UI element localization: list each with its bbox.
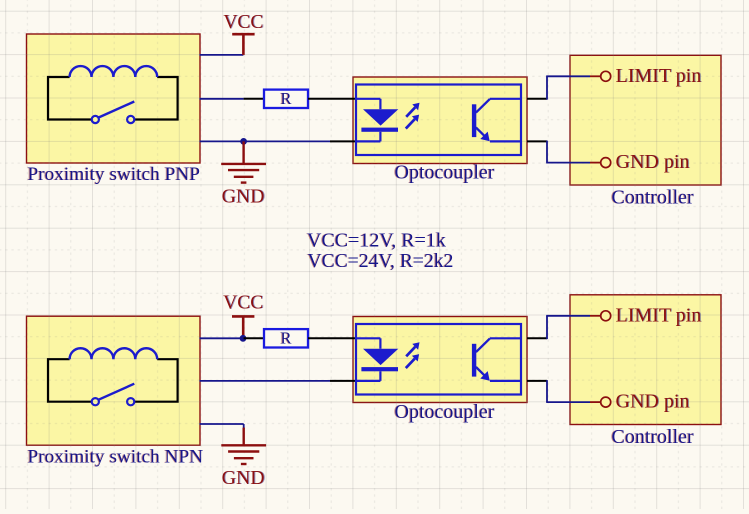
resistor R (bottom): [264, 329, 308, 348]
optocoupler U2 light arrows (bottom): [406, 342, 420, 368]
optocoupler U2 phototransistor (bottom): [472, 338, 521, 381]
svg-text:Optocoupler: Optocoupler: [395, 401, 495, 423]
svg-text:VCC=12V, R=1k: VCC=12V, R=1k: [307, 230, 446, 252]
label Controller (top): [610, 187, 694, 209]
optocoupler U1 phototransistor (top): [472, 99, 521, 142]
wire: PNP pin3 to optocoupler cathode (top): [200, 140, 331, 142]
optocoupler box (top): [353, 77, 527, 164]
inductor coil L2: [70, 348, 158, 359]
svg-text:GND: GND: [222, 186, 265, 208]
label Optocoupler (top): [394, 161, 495, 183]
label VCC (bottom): [223, 293, 264, 314]
label Proximity switch PNP: [27, 164, 201, 185]
label LIMIT pin (top): [616, 65, 703, 87]
wire: PNP pin1 to VCC: [200, 54, 244, 56]
wire: collector to LIMIT pin (bottom): [546, 316, 590, 339]
pin LIMIT (top controller): [590, 71, 611, 81]
svg-text:Optocoupler: Optocoupler: [395, 161, 495, 183]
optocoupler U1 light arrows (top): [406, 103, 420, 129]
resistor R left pin (top): [244, 98, 264, 100]
svg-text:VCC: VCC: [223, 12, 263, 33]
inductor L1 (PNP sensor outline): [48, 77, 178, 120]
wire: emitter to GND pin (top): [546, 141, 590, 163]
label Optocoupler (bottom): [394, 401, 495, 423]
controller box (bottom): [570, 295, 721, 425]
optocoupler U1 LED (top): [356, 99, 398, 142]
wire: emitter to GND pin (bottom): [546, 380, 590, 402]
pin GND (bottom controller): [590, 397, 611, 407]
switch S1 (PNP output contact): [92, 102, 135, 124]
svg-text:VCC: VCC: [223, 293, 263, 314]
wire: NPN pin2 to optocoupler cathode (bottom): [200, 380, 331, 382]
svg-text:Controller: Controller: [611, 426, 694, 448]
wire: NPN pin3 to ground (bottom): [200, 424, 244, 429]
optocoupler cathode pin (top): [330, 140, 356, 142]
label GND (top): [222, 186, 266, 208]
optocoupler U1 inner rect (top): [356, 85, 521, 156]
proximity switch NPN box: [27, 316, 201, 445]
svg-text:GND pin: GND pin: [616, 391, 690, 413]
optocoupler U2 LED (bottom): [356, 338, 398, 381]
pin LIMIT (bottom controller): [590, 311, 611, 321]
label VCC (top): [223, 12, 264, 33]
switch S2 (NPN output contact): [92, 384, 135, 406]
optocoupler collector pin (top): [527, 98, 547, 100]
wire: NPN pin1 to VCC node and resistor (bottom): [200, 337, 244, 339]
optocoupler box (bottom): [353, 317, 527, 403]
resistor R right pin / optocoupler anode pin (bottom): [308, 337, 356, 339]
inductor coil L1: [70, 66, 158, 77]
node: GND junction (top): [240, 138, 247, 145]
pin GND (top controller): [590, 158, 611, 168]
controller box (top): [570, 55, 721, 185]
svg-text:GND pin: GND pin: [616, 151, 690, 173]
wire: PNP pin2 to resistor R: [200, 98, 244, 100]
svg-text:Proximity switch NPN: Proximity switch NPN: [28, 446, 204, 467]
power VCC (top): [232, 34, 254, 55]
svg-text:LIMIT pin: LIMIT pin: [616, 304, 702, 326]
label Controller (bottom): [610, 426, 694, 448]
svg-text:LIMIT pin: LIMIT pin: [616, 65, 702, 87]
label Proximity switch NPN: [27, 446, 204, 467]
resistor R (top): [264, 89, 308, 108]
proximity switch PNP box: [27, 34, 201, 163]
label GND (bottom): [222, 467, 266, 489]
ground GND (bottom): [221, 428, 266, 464]
svg-text:VCC=24V, R=2k2: VCC=24V, R=2k2: [308, 251, 454, 272]
resistor R right pin / optocoupler anode pin (top): [308, 98, 356, 100]
svg-text:Proximity switch PNP: Proximity switch PNP: [28, 164, 201, 185]
svg-text:GND: GND: [222, 467, 265, 489]
optocoupler U2 inner rect (bottom): [356, 324, 521, 395]
optocoupler emitter pin (bottom): [527, 380, 547, 382]
value label VCC=12V, R=1k: [306, 230, 446, 252]
label GND pin (bottom): [616, 391, 691, 413]
optocoupler emitter pin (top): [527, 140, 547, 142]
resistor R left pin (bottom): [244, 337, 264, 339]
optocoupler cathode pin (bottom): [330, 380, 356, 382]
value label VCC=24V, R=2k2: [307, 251, 454, 272]
label GND pin (top): [616, 151, 691, 173]
svg-text:Controller: Controller: [611, 187, 694, 209]
power VCC (bottom): [232, 316, 254, 338]
optocoupler collector pin (bottom): [527, 337, 547, 339]
label LIMIT pin (bottom): [616, 304, 703, 326]
svg-text:R: R: [280, 89, 291, 108]
node: VCC junction (bottom): [240, 335, 247, 342]
ground GND (top): [221, 141, 266, 182]
svg-text:R: R: [280, 329, 291, 348]
wire: collector to LIMIT pin (top): [546, 76, 590, 99]
inductor L2 (NPN sensor outline): [48, 359, 178, 402]
